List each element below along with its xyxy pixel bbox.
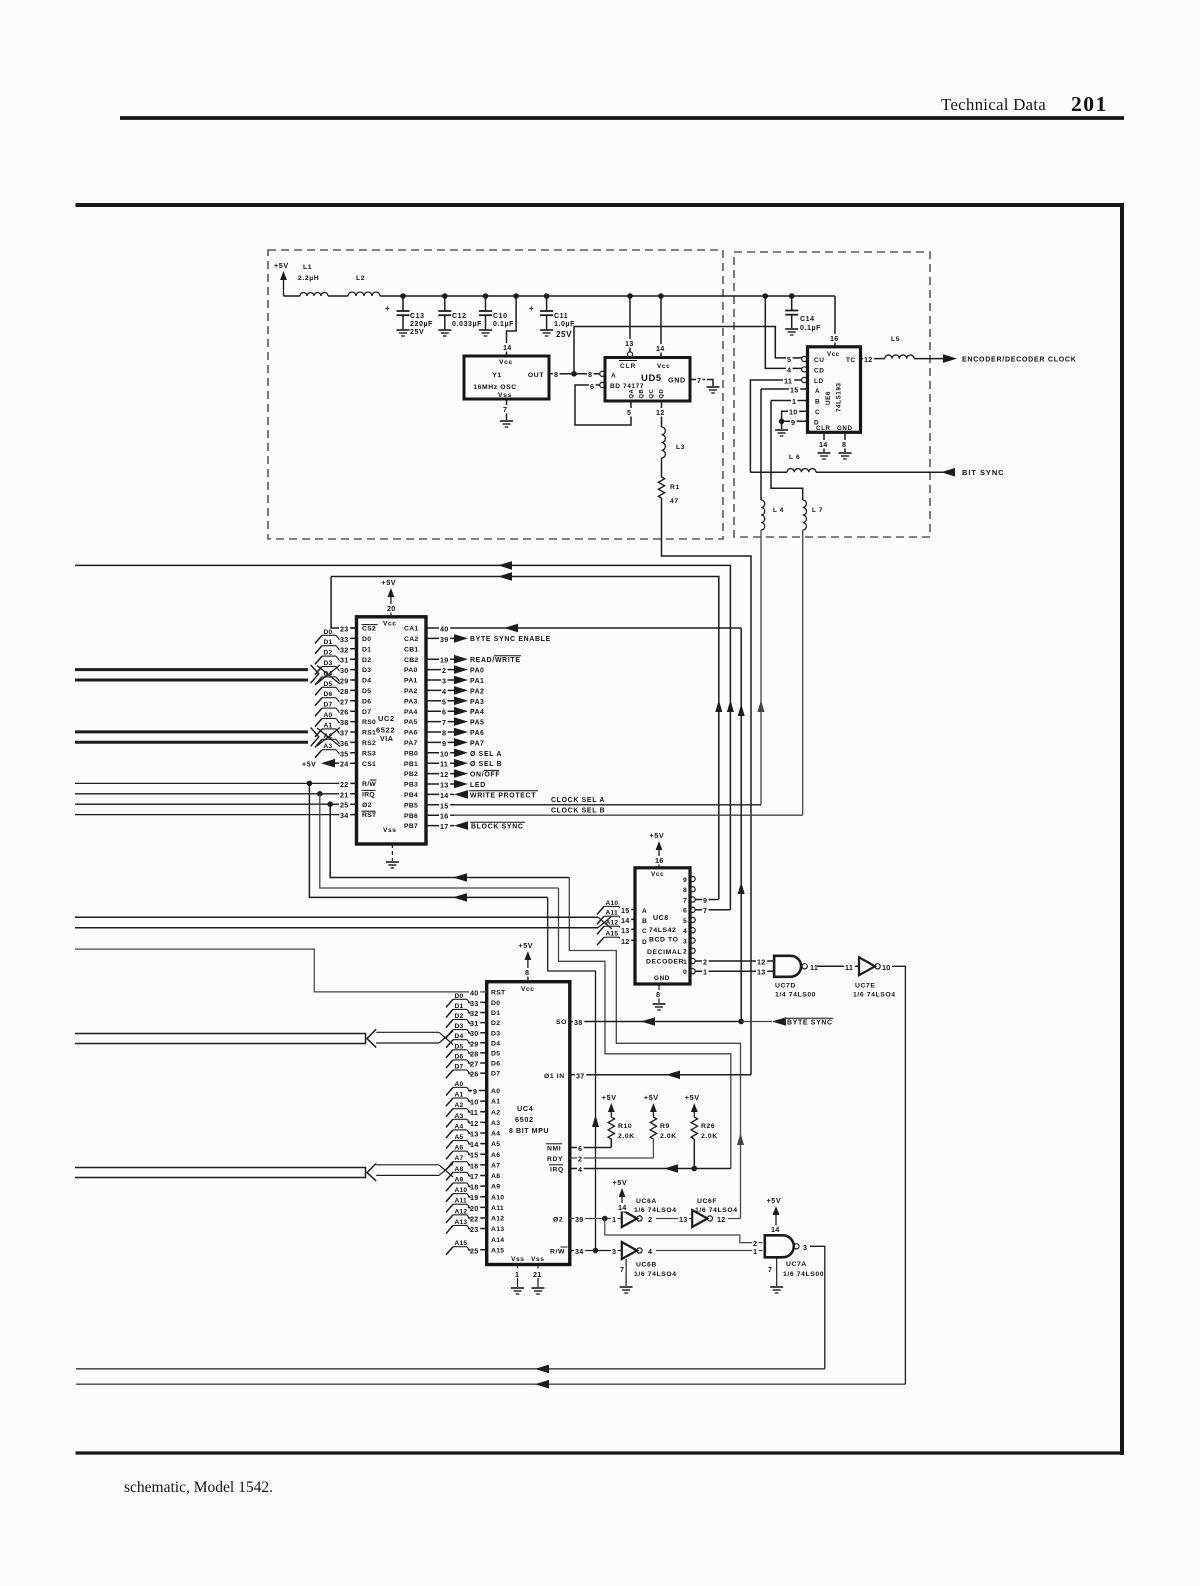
svg-text:2: 2	[578, 1155, 582, 1164]
svg-text:+5V: +5V	[302, 762, 316, 769]
svg-text:CLR: CLR	[620, 363, 636, 370]
svg-text:D7: D7	[491, 1071, 500, 1078]
svg-text:R9: R9	[660, 1123, 670, 1130]
svg-text:D1: D1	[491, 1010, 500, 1017]
svg-text:21: 21	[533, 1270, 542, 1279]
svg-text:A4: A4	[455, 1123, 464, 1130]
ground UE6 GND	[839, 453, 852, 459]
svg-text:22: 22	[340, 780, 349, 789]
wire UC2 RST line to left edge	[75, 814, 338, 816]
svg-text:7: 7	[703, 906, 707, 915]
svg-text:8: 8	[842, 440, 846, 449]
svg-text:BCD TO: BCD TO	[649, 937, 679, 944]
svg-text:2: 2	[648, 1215, 652, 1224]
svg-text:A10: A10	[606, 900, 619, 907]
svg-text:D0: D0	[324, 629, 333, 636]
dashed enclosure box clock generator	[268, 250, 723, 539]
svg-text:D7: D7	[362, 709, 371, 716]
svg-text:D2: D2	[491, 1020, 500, 1027]
svg-text:A4: A4	[491, 1131, 500, 1138]
wire Y1 OUT pin 8 to UD5 pin 8	[549, 370, 600, 379]
svg-text:7: 7	[683, 897, 687, 904]
svg-text:IRQ: IRQ	[362, 791, 375, 798]
inverter UC6F 1/6 74LS04	[692, 1198, 737, 1227]
svg-text:12: 12	[621, 937, 630, 946]
svg-text:SO: SO	[556, 1019, 567, 1026]
power +5V arrow UC8 Vcc pin 16	[650, 831, 666, 868]
svg-text:16: 16	[440, 812, 449, 821]
junction dots on +5V rail	[400, 293, 664, 299]
svg-text:12: 12	[470, 1119, 479, 1128]
svg-text:schematic, Model 1542.: schematic, Model 1542.	[124, 1479, 273, 1496]
node BIT SYNC	[941, 468, 1005, 477]
svg-text:+: +	[385, 304, 390, 313]
wire phi1 IN pin 37 from divided clock	[570, 1071, 751, 1081]
node BYTE SYNC input	[741, 1017, 833, 1026]
svg-text:1/6 74LSO4: 1/6 74LSO4	[695, 1207, 738, 1214]
svg-text:R10: R10	[618, 1123, 632, 1130]
svg-text:15: 15	[470, 1151, 479, 1160]
svg-text:C: C	[815, 409, 820, 416]
svg-text:PA6: PA6	[404, 730, 418, 737]
svg-text:D4: D4	[455, 1033, 464, 1040]
wire RST from left edge to UC4 pin 40	[75, 949, 487, 992]
svg-text:D4: D4	[324, 670, 333, 677]
svg-text:A5: A5	[491, 1141, 500, 1148]
svg-text:UC7A: UC7A	[786, 1261, 807, 1268]
wire UC7D output to UC7E	[817, 963, 859, 972]
svg-text:D: D	[642, 939, 647, 946]
svg-text:8: 8	[683, 887, 687, 894]
svg-text:DECIMAL: DECIMAL	[647, 949, 682, 956]
wire UC8 output 0 pin 1 to UC7D	[695, 968, 774, 977]
svg-text:31: 31	[470, 1019, 479, 1028]
svg-text:20: 20	[470, 1204, 479, 1213]
svg-text:A6: A6	[491, 1152, 500, 1159]
svg-text:17: 17	[440, 822, 449, 831]
bus data lines into UC2 with crossover	[75, 665, 340, 684]
capacitor C13 220uF 25V	[385, 296, 433, 336]
svg-text:40: 40	[440, 625, 449, 634]
svg-text:14: 14	[621, 916, 630, 925]
svg-text:CB2: CB2	[404, 657, 419, 664]
svg-text:17: 17	[470, 1172, 479, 1181]
svg-text:UC6A: UC6A	[636, 1198, 657, 1205]
svg-text:1/6 74LSO4: 1/6 74LSO4	[634, 1207, 677, 1214]
wire UC6B output to UC7A input 1	[656, 1247, 763, 1256]
wire BIT SYNC line	[816, 471, 944, 473]
svg-text:D4: D4	[491, 1040, 500, 1047]
wire IRQ branch stepped path	[320, 794, 731, 1169]
svg-text:R1: R1	[670, 484, 680, 491]
svg-text:6522: 6522	[376, 726, 395, 735]
ground UE6 pins 9 10	[775, 430, 788, 436]
svg-text:Vss: Vss	[531, 1256, 545, 1263]
svg-text:D5: D5	[455, 1043, 464, 1050]
svg-text:PA0: PA0	[404, 667, 418, 674]
svg-text:+5V: +5V	[685, 1093, 700, 1102]
wire UE6 pin 15 A stub	[761, 388, 808, 390]
svg-text:C12: C12	[452, 313, 467, 320]
svg-text:1/6 74LSO4: 1/6 74LSO4	[853, 992, 896, 999]
svg-text:5: 5	[683, 918, 687, 925]
svg-text:A10: A10	[455, 1187, 468, 1194]
svg-text:39: 39	[440, 635, 449, 644]
svg-text:+5V: +5V	[518, 941, 533, 950]
caption schematic, Model 1542.	[124, 1479, 273, 1496]
UC8 input stubs and pin numbers	[620, 906, 635, 946]
wire +5V rail	[380, 295, 835, 297]
svg-text:A9: A9	[491, 1184, 500, 1191]
wire UE6 TC pin 12 output	[861, 355, 885, 364]
UD5 pin 14 Vcc wire	[655, 296, 666, 358]
svg-text:QC: QC	[649, 388, 655, 398]
svg-text:74LS42: 74LS42	[649, 927, 676, 934]
UC8 input fan labels A10 A11 A12 A15	[597, 900, 623, 945]
svg-text:4: 4	[648, 1247, 652, 1256]
bus address select lines to UC8	[75, 916, 612, 929]
svg-text:ENCODER/DECODER CLOCK: ENCODER/DECODER CLOCK	[962, 357, 1077, 364]
wire UE6 GND pin 8 to ground	[841, 432, 848, 452]
svg-text:C11: C11	[554, 313, 568, 320]
svg-text:9: 9	[703, 896, 707, 905]
inductor L4	[761, 500, 784, 530]
svg-text:47: 47	[670, 498, 679, 505]
svg-text:Ø SEL B: Ø SEL B	[470, 761, 502, 768]
node ON/OFF output PB2	[454, 769, 500, 778]
svg-text:16: 16	[655, 856, 664, 865]
svg-text:2.0K: 2.0K	[660, 1133, 677, 1140]
svg-text:D1: D1	[362, 646, 371, 653]
bus address lines into UC2 with crossover	[75, 728, 340, 747]
svg-text:L 7: L 7	[812, 507, 823, 514]
svg-text:31: 31	[340, 656, 349, 665]
svg-text:A11: A11	[606, 910, 618, 917]
svg-text:4: 4	[578, 1165, 582, 1174]
svg-text:A10: A10	[491, 1194, 504, 1201]
svg-text:3: 3	[442, 677, 446, 686]
UC4 data fan labels D0-D7	[446, 993, 471, 1078]
svg-text:74LS193: 74LS193	[836, 383, 843, 412]
svg-text:38: 38	[340, 718, 349, 727]
svg-text:A3: A3	[491, 1120, 500, 1127]
nand gate UC7A 1/6 74LS00	[765, 1235, 824, 1278]
ground UC7A pin 7	[767, 1257, 783, 1293]
power +5V arrow UC4 Vcc pin 8	[518, 941, 534, 993]
svg-text:PA0: PA0	[470, 668, 484, 675]
svg-text:11: 11	[470, 1108, 478, 1117]
svg-text:CS1: CS1	[362, 761, 376, 768]
wire UE6 pin 15 A down through L4	[760, 389, 762, 500]
svg-text:B: B	[815, 399, 820, 406]
UC2 right pin name labels	[404, 626, 419, 831]
svg-text:A7: A7	[491, 1162, 500, 1169]
svg-text:PB2: PB2	[404, 771, 418, 778]
svg-text:A5: A5	[455, 1134, 464, 1141]
svg-text:2.0K: 2.0K	[701, 1133, 718, 1140]
svg-text:33: 33	[470, 999, 479, 1008]
nodes PA0-PA7 outputs	[454, 665, 484, 747]
svg-text:Vcc: Vcc	[383, 621, 397, 628]
svg-text:29: 29	[470, 1039, 479, 1048]
svg-text:15: 15	[621, 906, 630, 915]
svg-text:D2: D2	[324, 650, 333, 657]
svg-text:12: 12	[717, 1215, 726, 1224]
svg-text:VIA: VIA	[380, 736, 393, 743]
svg-text:+5V: +5V	[381, 578, 396, 587]
svg-text:PB7: PB7	[404, 823, 418, 830]
svg-text:8: 8	[525, 968, 529, 977]
svg-text:A7: A7	[455, 1155, 464, 1162]
svg-text:A15: A15	[491, 1247, 504, 1254]
svg-text:L5: L5	[891, 336, 900, 343]
svg-text:PB5: PB5	[404, 802, 418, 809]
svg-text:CB1: CB1	[404, 646, 419, 653]
svg-text:PA4: PA4	[404, 709, 418, 716]
wire UE6 pin 9 D to ground	[779, 419, 808, 430]
ground UD5 pin 7	[707, 387, 720, 393]
wire UC6A to UC6F	[656, 1215, 692, 1224]
svg-text:+: +	[529, 304, 534, 313]
junction dot rail at C14	[789, 293, 795, 299]
svg-text:30: 30	[340, 666, 349, 675]
power +5V into UC2 CS1 pin 24	[302, 759, 338, 769]
svg-text:Y1: Y1	[492, 372, 502, 379]
svg-text:D0: D0	[455, 993, 464, 1000]
svg-text:D1: D1	[455, 1003, 464, 1010]
svg-text:A11: A11	[491, 1205, 504, 1212]
wire Vcc to Y1 pin 14	[507, 296, 517, 356]
svg-text:L1: L1	[303, 264, 312, 271]
wire UC8 output 6 to off page left line A	[75, 561, 734, 910]
UC4 left pin name labels	[491, 990, 506, 1255]
svg-text:UC2: UC2	[378, 714, 395, 723]
svg-text:21: 21	[340, 790, 349, 799]
svg-text:28: 28	[470, 1049, 479, 1058]
capacitor C11 10uF 25V	[529, 296, 575, 339]
svg-text:D6: D6	[491, 1061, 500, 1068]
svg-text:A14: A14	[491, 1237, 504, 1244]
svg-text:RDY: RDY	[547, 1156, 563, 1163]
svg-text:D5: D5	[362, 688, 371, 695]
svg-text:35: 35	[340, 749, 349, 758]
wire RDY pin 2	[570, 1155, 654, 1164]
svg-text:R/W: R/W	[362, 781, 376, 788]
svg-text:14: 14	[470, 1140, 479, 1149]
wire bottom feedback line from UC7E	[76, 1380, 905, 1389]
svg-text:8: 8	[656, 990, 660, 999]
svg-text:GND: GND	[668, 376, 686, 385]
UC4 Vss pins 1 and 21 grounds	[511, 1256, 545, 1294]
svg-text:L3: L3	[676, 444, 685, 451]
power +5V arrow UC6A pin 14	[613, 1178, 629, 1212]
svg-text:UE6: UE6	[825, 391, 832, 405]
svg-text:PA6: PA6	[470, 730, 484, 737]
svg-text:D5: D5	[324, 681, 333, 688]
svg-text:A: A	[611, 373, 616, 380]
UC4 address fan labels A0-A15	[446, 1081, 471, 1255]
svg-text:D4: D4	[362, 678, 371, 685]
svg-text:A2: A2	[455, 1102, 464, 1109]
capacitor C12 0.033uF	[438, 296, 482, 336]
bus address hollow bar to UC4	[75, 1163, 453, 1181]
svg-text:C13: C13	[410, 313, 425, 320]
svg-text:14: 14	[503, 343, 512, 352]
svg-text:D7: D7	[455, 1064, 464, 1071]
svg-text:+5V: +5V	[650, 831, 665, 840]
svg-text:BIT SYNC: BIT SYNC	[962, 468, 1005, 477]
svg-text:PA7: PA7	[470, 740, 484, 747]
svg-text:19: 19	[470, 1193, 479, 1202]
svg-text:23: 23	[470, 1225, 479, 1234]
svg-text:BLOCK SYNC: BLOCK SYNC	[471, 824, 524, 831]
bus data hollow bar to UC4	[75, 1029, 453, 1047]
svg-text:OUT: OUT	[528, 372, 544, 379]
svg-text:IRQ: IRQ	[550, 1167, 564, 1174]
svg-text:7: 7	[503, 405, 507, 414]
svg-text:2.2µH: 2.2µH	[298, 275, 319, 282]
svg-text:30: 30	[470, 1029, 479, 1038]
svg-text:1: 1	[515, 1270, 519, 1279]
inverter UC6B 1/6 74LS04	[622, 1242, 677, 1278]
UC4 right pin labels	[544, 1019, 568, 1256]
svg-text:4: 4	[787, 365, 791, 374]
svg-text:1/6 74LS00: 1/6 74LS00	[783, 1271, 824, 1278]
resistor R9 2.0K pullup	[644, 1093, 677, 1158]
svg-text:11: 11	[845, 963, 853, 972]
svg-text:9: 9	[473, 1087, 477, 1096]
ground Y1 pin 7	[500, 399, 513, 427]
svg-text:0: 0	[683, 969, 687, 976]
schematic frame border	[76, 203, 1125, 1455]
node ENCODER/DECODER CLOCK	[943, 354, 1077, 363]
svg-text:+5V: +5V	[767, 1196, 782, 1205]
svg-text:9: 9	[791, 418, 795, 427]
svg-text:D3: D3	[362, 667, 371, 674]
svg-text:40: 40	[470, 988, 479, 997]
node READ/WRITE output CB2	[454, 655, 521, 664]
UC2 right pin stubs and numbers	[426, 625, 454, 832]
svg-text:15: 15	[440, 801, 449, 810]
node phi SEL B output PB1	[454, 759, 502, 768]
oscillator Y1 16MHz	[464, 343, 549, 399]
svg-text:14: 14	[771, 1225, 780, 1234]
wire phi2 branch stepped path	[330, 804, 744, 1218]
svg-text:RS2: RS2	[362, 740, 376, 747]
svg-text:A0: A0	[455, 1081, 464, 1088]
dashed enclosure box counter section	[734, 252, 930, 537]
svg-text:A13: A13	[491, 1226, 504, 1233]
svg-text:PB1: PB1	[404, 761, 418, 768]
svg-text:A15: A15	[606, 931, 619, 938]
wire UC2 IRQ line to left edge	[75, 791, 338, 797]
svg-text:Vcc: Vcc	[827, 351, 840, 358]
svg-text:Technical Data: Technical Data	[941, 95, 1046, 114]
svg-text:+5V: +5V	[274, 261, 289, 270]
wire CLOCK SEL A net PB5	[454, 797, 761, 805]
svg-text:6: 6	[442, 708, 446, 717]
svg-text:NMI: NMI	[547, 1146, 561, 1153]
svg-text:Ø2: Ø2	[362, 802, 372, 809]
svg-text:3: 3	[683, 938, 687, 945]
svg-text:1/4 74LS00: 1/4 74LS00	[775, 992, 816, 999]
svg-text:D5: D5	[491, 1051, 500, 1058]
svg-text:Ø2: Ø2	[553, 1217, 563, 1224]
svg-text:25V: 25V	[410, 329, 424, 336]
svg-text:5: 5	[442, 697, 446, 706]
svg-text:Ø SEL A: Ø SEL A	[470, 751, 502, 758]
svg-text:PB3: PB3	[404, 782, 418, 789]
svg-text:UC7D: UC7D	[775, 983, 796, 990]
junction byte sync	[738, 1019, 744, 1025]
svg-text:Vcc: Vcc	[499, 359, 513, 366]
svg-text:L2: L2	[356, 275, 365, 282]
svg-text:27: 27	[470, 1060, 479, 1069]
svg-text:10: 10	[470, 1098, 479, 1107]
resistor R1 47	[658, 477, 680, 505]
svg-text:3: 3	[612, 1247, 616, 1256]
svg-text:Vcc: Vcc	[657, 363, 670, 370]
svg-text:1: 1	[612, 1215, 616, 1224]
node phi SEL A output PB0	[454, 749, 502, 758]
wire CLOCK SEL B net PB6	[454, 807, 803, 815]
svg-text:UC4: UC4	[517, 1104, 534, 1113]
svg-text:22: 22	[470, 1214, 479, 1223]
svg-text:37: 37	[576, 1071, 585, 1080]
svg-text:7: 7	[620, 1265, 624, 1274]
wire UE6 CLR pin 14 to ground	[818, 432, 829, 452]
header rule	[120, 116, 1124, 120]
svg-text:6: 6	[683, 908, 687, 915]
inductor L6	[750, 454, 816, 472]
wire L3 to R1	[661, 458, 663, 477]
inverter UC6A 1/6 74LS04	[622, 1198, 677, 1227]
node WRITE PROTECT input PB4	[454, 790, 538, 799]
svg-text:UD5: UD5	[641, 373, 662, 384]
svg-text:6: 6	[578, 1144, 582, 1153]
svg-text:18: 18	[470, 1183, 479, 1192]
svg-text:0.033µF: 0.033µF	[452, 321, 482, 328]
ground UC6B pin 7	[619, 1259, 633, 1293]
svg-text:+5V: +5V	[613, 1178, 628, 1187]
svg-text:QD: QD	[659, 389, 665, 399]
svg-text:5: 5	[787, 355, 791, 364]
UE6 pin number labels	[783, 355, 800, 427]
wire byte sync vertical to CA1	[738, 628, 745, 1022]
capacitor C10 0.1uF	[479, 296, 514, 336]
junction node OUT	[571, 371, 577, 377]
svg-text:PB4: PB4	[404, 792, 418, 799]
svg-text:29: 29	[340, 677, 349, 686]
svg-text:38: 38	[574, 1018, 583, 1027]
svg-text:A1: A1	[324, 722, 333, 729]
svg-text:23: 23	[340, 625, 349, 634]
svg-text:A12: A12	[455, 1208, 468, 1215]
svg-text:GND: GND	[837, 425, 853, 432]
svg-text:UC6F: UC6F	[697, 1198, 717, 1205]
svg-text:A15: A15	[455, 1240, 468, 1247]
svg-text:34: 34	[575, 1247, 584, 1256]
wire CS2 elbow down to UC2 pin 23	[331, 577, 356, 629]
VIA UC2 6522	[357, 617, 427, 844]
resistor R10 2.0K pullup	[602, 1093, 635, 1148]
svg-text:16MHz OSC: 16MHz OSC	[473, 384, 517, 391]
wire UE6 pin 1 B stub	[771, 400, 808, 402]
svg-text:12: 12	[440, 770, 449, 779]
svg-text:D2: D2	[362, 657, 371, 664]
UC4 SO pin 38 stub	[573, 1018, 584, 1027]
svg-text:25V: 25V	[556, 330, 572, 339]
